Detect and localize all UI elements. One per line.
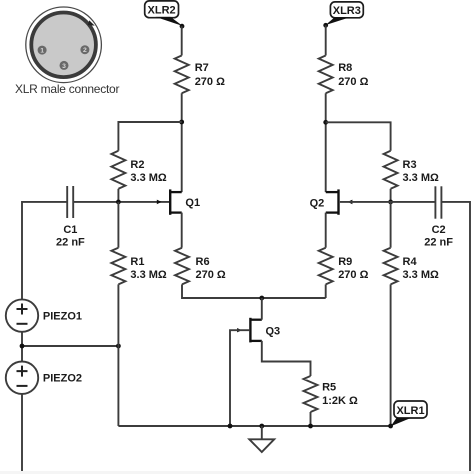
svg-text:1: 1 (40, 48, 44, 55)
XLR male connector outer circle (26, 7, 102, 83)
node XLR2 tap (180, 24, 185, 29)
wire R7 bottom down to Q1 drain (181, 93, 183, 192)
svg-text:C2: C2 (432, 224, 446, 236)
wire Q2 gate to C2 (340, 201, 436, 203)
transistor Q3 (237, 318, 280, 343)
resistor R9 (319, 248, 369, 285)
svg-text:R1: R1 (130, 256, 144, 268)
svg-text:R2: R2 (130, 159, 144, 171)
resistor R2 (111, 151, 167, 189)
ground (249, 426, 274, 452)
node ground tap (259, 424, 264, 429)
wire R6 bottom to Q3 drain rail (182, 284, 326, 298)
wire R1 bottom down to bottom rail (117, 284, 119, 426)
svg-text:R5: R5 (322, 382, 336, 394)
svg-text:270 Ω: 270 Ω (196, 269, 226, 281)
transistor Q2 (310, 189, 353, 214)
wire branch to R3 top (326, 122, 391, 151)
svg-text:R8: R8 (338, 62, 352, 74)
svg-text:XLR male connector: XLR male connector (15, 82, 119, 96)
svg-text:C1: C1 (63, 224, 77, 236)
wire: C1 left to left rail corner down to PIEZO1 (22, 202, 67, 300)
wire branch to R2 top (118, 122, 181, 151)
resistor R4 (384, 202, 439, 285)
node XLR3 tap (323, 23, 328, 28)
svg-text:3.3 MΩ: 3.3 MΩ (130, 172, 167, 184)
svg-text:XLR3: XLR3 (333, 5, 361, 17)
resistor R5 (304, 376, 358, 412)
bottom page strip (0, 471, 474, 474)
wire between piezos (21, 332, 23, 362)
node R5 bottom (308, 424, 313, 429)
node R8/R3 branch (323, 120, 328, 125)
svg-text:R4: R4 (403, 256, 418, 268)
wire piezo junction to R1 line (22, 345, 118, 347)
resistor R1 (111, 202, 167, 285)
wire R2 bottom to gate junction (117, 189, 119, 202)
svg-text:270 Ω: 270 Ω (195, 76, 225, 88)
wire: C1 right plate to Q1 gate (73, 201, 169, 203)
svg-text:Q3: Q3 (266, 326, 281, 338)
node XLR1 tap (388, 424, 393, 429)
svg-text:3.3 MΩ: 3.3 MΩ (403, 269, 440, 281)
XLR pin 2 (80, 45, 89, 54)
resistor R3 (384, 151, 439, 189)
svg-text:3: 3 (62, 63, 66, 70)
svg-text:270 Ω: 270 Ω (338, 269, 368, 281)
svg-text:XLR2: XLR2 (148, 5, 176, 17)
svg-text:XLR1: XLR1 (396, 405, 424, 417)
XLR3 label (325, 2, 363, 25)
svg-text:Q1: Q1 (185, 197, 200, 209)
svg-text:22 nF: 22 nF (56, 236, 85, 248)
node gate junction left (116, 200, 121, 205)
node R7/R2 branch (179, 120, 184, 125)
XLR male connector body (31, 13, 96, 78)
svg-text:1:2K Ω: 1:2K Ω (322, 395, 358, 407)
wire R5 bottom to rail (310, 412, 312, 426)
wire below PIEZO2 to bottom edge (21, 394, 23, 474)
svg-text:3.3 MΩ: 3.3 MΩ (403, 172, 440, 184)
transistor Q1 (157, 189, 200, 214)
capacitor C1 (56, 186, 85, 248)
svg-text:3.3 MΩ: 3.3 MΩ (130, 269, 167, 281)
svg-text:R9: R9 (338, 256, 352, 268)
wire R3 bottom to gate junction (390, 189, 392, 202)
wire C2 right to right rail down (441, 202, 470, 474)
wire R9 bottom rail (325, 284, 327, 298)
svg-text:Q2: Q2 (310, 197, 325, 209)
wire XLR3 tap to R8 (325, 25, 327, 55)
node piezo junction (20, 344, 25, 349)
wire Q3 gate from bottom rail (230, 330, 249, 426)
wire Q3 drain up (261, 298, 263, 320)
svg-text:270 Ω: 270 Ω (338, 76, 368, 88)
node Q3 gate tap (228, 424, 233, 429)
source PIEZO1 (6, 299, 82, 331)
node Q3 drain tap (259, 296, 264, 301)
wire R4 bottom down to XLR1 tap (390, 284, 392, 426)
svg-text:R3: R3 (403, 159, 417, 171)
capacitor C2 (424, 186, 453, 248)
wire Q1 source down to R6 (181, 213, 183, 248)
resistor R7 (175, 56, 225, 94)
source PIEZO2 (6, 362, 82, 394)
XLR pin 3 (60, 61, 69, 70)
wire Q2 source down to R9 (325, 213, 327, 248)
XLR pin 1 (38, 46, 47, 55)
XLR1 label (391, 401, 427, 426)
XLR connector notch (88, 20, 95, 25)
svg-text:PIEZO2: PIEZO2 (43, 373, 82, 385)
svg-text:2: 2 (83, 47, 87, 54)
node gate junction right (388, 200, 393, 205)
wire XLR2 tap to R7 (181, 26, 183, 55)
svg-text:22 nF: 22 nF (424, 236, 453, 248)
wire bottom rail (118, 425, 390, 427)
svg-text:R7: R7 (195, 62, 209, 74)
resistor R8 (319, 56, 369, 94)
resistor R6 (175, 248, 226, 285)
node R1 line junction (116, 344, 121, 349)
XLR2 label (145, 1, 183, 26)
svg-text:PIEZO1: PIEZO1 (43, 310, 82, 322)
wire Q3 source to R5 (262, 341, 311, 376)
svg-text:R6: R6 (196, 256, 210, 268)
wire R8 bottom down to Q2 drain (325, 93, 327, 192)
